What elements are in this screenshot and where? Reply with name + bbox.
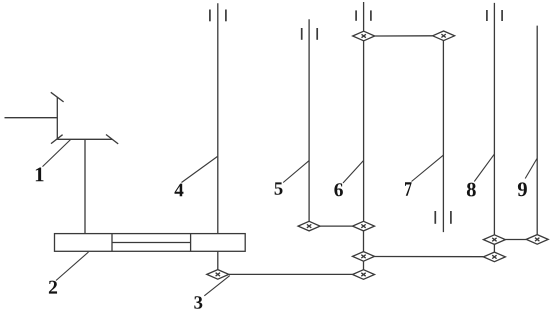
leader line for label 1 — [43, 140, 71, 167]
leader line for label 7 — [412, 155, 444, 181]
collimator dash left of probe 4 — [209, 10, 211, 22]
label 4 — [175, 184, 184, 197]
node T6 diamond — [353, 31, 375, 41]
wire: horizontal node B to node 8b — [375, 256, 484, 258]
collimator dash right of probe 8 — [501, 10, 503, 21]
label 5 — [275, 182, 283, 194]
wire: probe 6 vertical above top node — [363, 2, 365, 31]
node C center cross — [361, 273, 365, 276]
wire: bottom horizontal node3 to node C — [229, 273, 353, 275]
stage divider left — [111, 234, 113, 252]
collimator dash right of probe 5 — [316, 28, 318, 40]
label 6 — [334, 183, 343, 196]
wire: probe 4 vertical — [217, 3, 219, 233]
stage divider right — [190, 234, 192, 252]
leader line for label 8 — [474, 154, 494, 181]
node 8b diamond — [483, 252, 505, 262]
node B center cross — [361, 255, 365, 258]
collimator dash left of probe 7 bottom — [434, 211, 436, 224]
node 9 center cross — [535, 238, 539, 241]
label 1 — [36, 168, 44, 182]
label 7 — [405, 182, 412, 196]
wire: drop line from assembly to stage — [84, 139, 86, 233]
wire: top horizontal T6 to T7 — [375, 35, 433, 37]
wire: horizontal node 8 to node 9 — [505, 239, 526, 241]
wire: probe 6 vertical main — [363, 41, 365, 222]
collimator dash right of probe 4 — [225, 10, 227, 22]
wire: probe 9 vertical — [536, 26, 538, 235]
collimator dash left of probe 8 — [486, 10, 488, 21]
wire: probe 8 vertical — [493, 3, 495, 235]
leader line for label 3 — [204, 276, 230, 296]
leader line for label 2 — [56, 252, 89, 281]
mirror tick right end — [106, 135, 118, 144]
collimator dash left of probe 5 — [301, 28, 303, 40]
wire: probe 7 vertical — [442, 41, 444, 233]
node A diamond — [353, 221, 375, 231]
node A center cross — [361, 224, 365, 227]
node T7 center cross — [441, 34, 445, 37]
node C diamond — [353, 270, 375, 280]
label 9 — [518, 182, 527, 196]
stage outer rectangle (component 2) — [55, 234, 246, 252]
node 9 diamond — [526, 235, 548, 245]
node 8 center cross — [492, 238, 496, 241]
leader line for label 9 — [525, 159, 537, 179]
leader line for label 5 — [283, 161, 309, 183]
wire: mirror assembly vertical — [56, 97, 58, 139]
mirror tick top (45-degree) — [51, 92, 64, 102]
wire: vertical node A to node B — [363, 231, 365, 252]
node B diamond — [353, 252, 375, 262]
collimator dash left of probe 6 — [355, 10, 357, 20]
node 5 diamond — [298, 221, 320, 231]
node 3 center cross — [216, 273, 220, 276]
label 3 — [194, 296, 202, 309]
collimator dash right of probe 6 — [370, 10, 372, 20]
node 5 center cross — [307, 224, 311, 227]
node 8b center cross — [492, 255, 496, 258]
node 8 diamond — [483, 235, 505, 245]
wire: horizontal node5 to nodeA — [320, 225, 352, 227]
node T7 diamond — [433, 31, 455, 41]
wire: probe 5 vertical — [308, 19, 310, 221]
node T6 center cross — [362, 34, 366, 37]
wire: horizontal from corner to right mirror — [57, 138, 112, 140]
node 3 diamond — [207, 270, 229, 280]
wire: below stage to node 3 — [217, 251, 219, 269]
leader line for label 6 — [343, 161, 363, 183]
collimator dash right of probe 7 bottom — [450, 211, 452, 224]
stage middle rail line — [112, 242, 191, 244]
wire: vertical node B to node C — [363, 261, 365, 270]
leader line for label 4 — [182, 157, 218, 183]
label 8 — [467, 183, 476, 197]
wire: vertical node 8 to node 8b — [493, 244, 495, 252]
label 2 — [49, 281, 57, 294]
wire: input beam horizontal into mirror assembly — [5, 117, 58, 119]
mirror tick at corner — [51, 135, 63, 144]
